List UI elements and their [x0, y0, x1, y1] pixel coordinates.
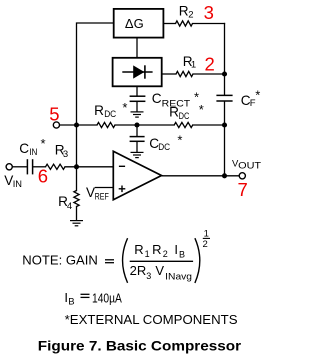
svg-text:1: 1	[145, 249, 150, 259]
svg-text:ΔG: ΔG	[125, 16, 144, 31]
svg-text:NOTE: GAIN: NOTE: GAIN	[22, 253, 98, 267]
svg-text:OUT: OUT	[238, 160, 262, 170]
svg-text:*: *	[194, 90, 199, 105]
svg-text:REF: REF	[95, 192, 109, 203]
svg-text:R: R	[134, 242, 143, 257]
svg-text:B: B	[68, 296, 74, 307]
svg-text:DC: DC	[179, 111, 190, 122]
svg-text:I: I	[174, 242, 178, 257]
svg-text:3: 3	[146, 271, 151, 281]
svg-text:R: R	[152, 242, 161, 257]
svg-text:INavg: INavg	[165, 271, 192, 281]
svg-text:2: 2	[188, 10, 193, 21]
svg-text:1: 1	[204, 228, 209, 239]
svg-text:R: R	[94, 103, 104, 118]
svg-text:1: 1	[191, 59, 196, 70]
svg-text:DC: DC	[158, 142, 170, 153]
svg-text:Figure 7. Basic Compressor: Figure 7. Basic Compressor	[38, 338, 242, 354]
svg-text:5: 5	[49, 104, 59, 125]
svg-text:RECT: RECT	[162, 98, 191, 109]
svg-text:*: *	[177, 133, 182, 148]
svg-text:C: C	[19, 141, 29, 156]
svg-text:*: *	[255, 88, 260, 103]
svg-text:C: C	[152, 91, 162, 106]
svg-text:2: 2	[163, 249, 168, 259]
svg-text:IN: IN	[29, 147, 37, 158]
svg-text:*EXTERNAL COMPONENTS: *EXTERNAL COMPONENTS	[65, 312, 238, 327]
svg-text:7: 7	[238, 179, 248, 200]
svg-text:4: 4	[67, 201, 72, 212]
svg-text:R: R	[179, 3, 189, 18]
svg-text:140µA: 140µA	[92, 290, 122, 305]
svg-text:2: 2	[205, 53, 215, 74]
svg-text:3: 3	[204, 2, 214, 23]
svg-text:V: V	[155, 263, 164, 278]
svg-text:B: B	[179, 250, 185, 260]
svg-text:6: 6	[38, 166, 48, 187]
svg-text:*: *	[199, 102, 204, 117]
svg-text:DC: DC	[104, 109, 116, 120]
svg-text:*: *	[41, 136, 46, 151]
svg-text:2R: 2R	[130, 263, 147, 278]
svg-text:IN: IN	[13, 179, 22, 190]
svg-text:3: 3	[63, 149, 68, 160]
svg-text:*: *	[122, 100, 127, 115]
svg-text:2: 2	[203, 239, 208, 250]
